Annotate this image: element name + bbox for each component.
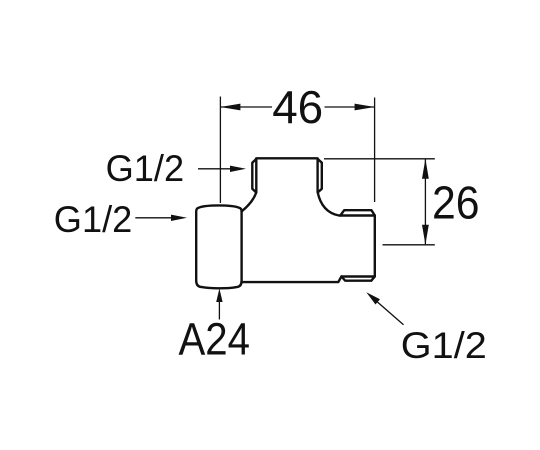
dimension 46 extension line right bbox=[374, 98, 376, 203]
tee body outline (top threaded port, right threaded port, bottom edge) bbox=[242, 158, 375, 282]
leader line A24 bbox=[218, 300, 220, 320]
dimension 26 extension line bottom bbox=[383, 244, 435, 246]
leader arrowhead G1/2 top bbox=[230, 166, 246, 172]
svg-text:G1/2: G1/2 bbox=[54, 198, 133, 240]
svg-text:G1/2: G1/2 bbox=[106, 147, 185, 189]
leader arrowhead G1/2 bottom right bbox=[366, 292, 380, 304]
top port thread crest band right bbox=[318, 159, 322, 193]
svg-text:A24: A24 bbox=[179, 314, 251, 365]
dimension 46 line left segment bbox=[221, 106, 272, 108]
cylinder port A24 (left) bbox=[196, 205, 241, 288]
right port thread crest band top bbox=[340, 210, 375, 215]
dimension 26 bottom arrowhead bbox=[422, 225, 429, 245]
top port thread crest band left bbox=[252, 159, 256, 193]
dimension 46 right arrowhead bbox=[355, 104, 375, 111]
svg-text:46: 46 bbox=[272, 81, 323, 133]
dimension 26 extension line top bbox=[324, 158, 435, 160]
leader line G1/2 top bbox=[198, 168, 232, 170]
svg-text:G1/2: G1/2 bbox=[401, 324, 487, 366]
dimension 46 left arrowhead bbox=[220, 104, 240, 111]
leader line G1/2 left bbox=[135, 217, 172, 219]
dimension 26 line bbox=[424, 160, 426, 245]
svg-text:26: 26 bbox=[432, 177, 480, 229]
dimension 46 line right segment bbox=[325, 106, 375, 108]
dimension 26 top arrowhead bbox=[422, 159, 429, 179]
leader arrowhead G1/2 left bbox=[171, 215, 187, 221]
leader arrowhead A24 bbox=[216, 289, 222, 303]
dimension 46 extension line left bbox=[219, 97, 221, 204]
leader line G1/2 bottom right bbox=[374, 299, 404, 325]
right port thread crest band bottom bbox=[341, 277, 374, 281]
